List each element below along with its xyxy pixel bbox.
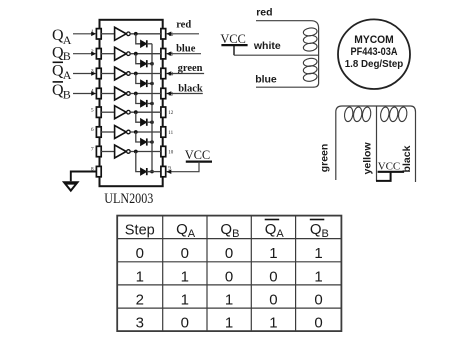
channel 2 driver [96,47,165,60]
svg-text:white: white [253,40,281,52]
svg-text:0: 0 [136,245,144,262]
svg-text:B: B [63,88,71,102]
svg-text:B: B [63,49,71,63]
svg-text:1: 1 [181,292,189,309]
wire input 1 [73,33,92,35]
COM wire to pin 9 [147,171,161,173]
svg-text:0: 0 [269,268,277,285]
svg-text:Q: Q [176,221,188,238]
svg-text:Step: Step [125,221,155,238]
coil L2 loops [344,107,408,123]
wire pin8 to ground [71,172,97,182]
svg-text:MYCOM: MYCOM [354,34,394,46]
svg-text:1: 1 [136,268,144,285]
diode D5 [136,112,154,126]
svg-text:3: 3 [136,315,144,332]
svg-text:A: A [188,228,196,240]
pin 8 GND pin [96,166,101,176]
wire output green [166,73,204,75]
ground symbol [62,181,80,192]
svg-text:green: green [178,63,203,74]
svg-text:PF443-03A: PF443-03A [351,46,398,58]
svg-text:A: A [63,33,72,47]
svg-text:V: V [220,32,229,46]
common cathode bus wire [151,44,153,172]
svg-text:1.8 Deg/Step: 1.8 Deg/Step [345,58,404,70]
channel 1 driver [96,27,165,40]
wire input 3 [73,73,92,75]
wire output blue [166,53,201,55]
wire output black [166,93,203,95]
IC U1 ULN2003 body [100,20,163,186]
input label not-QA [52,62,72,82]
svg-text:1: 1 [314,268,322,285]
motor M1 MYCOM circle [338,19,410,89]
table row step 2 [136,292,323,309]
diode D4 [136,94,154,108]
svg-text:0: 0 [181,245,189,262]
svg-text:CC: CC [194,148,211,162]
svg-text:black: black [178,83,203,94]
diode D2 [136,54,154,68]
svg-text:1: 1 [269,245,277,262]
svg-text:0: 0 [225,245,233,262]
svg-text:1: 1 [181,268,189,285]
svg-text:Q: Q [265,221,277,238]
table row step 0 [136,245,323,262]
diode D1 [136,34,152,48]
diode D7 [136,152,154,176]
channel 3 driver [96,67,165,80]
VCC supply at pin 9 [166,148,212,174]
input label not-QB [52,82,71,102]
VCC supply winding2 [376,161,404,181]
svg-text:red: red [256,7,272,19]
pin 9 COM pin [161,166,166,176]
svg-text:black: black [401,145,413,172]
svg-text:CC: CC [229,32,246,46]
svg-text:10: 10 [168,151,174,156]
wire output red [166,33,199,35]
channel 7 driver [96,145,165,158]
svg-text:1: 1 [225,315,233,332]
svg-text:0: 0 [225,268,233,285]
svg-text:blue: blue [255,73,277,85]
channel 5 driver [96,106,165,119]
svg-text:1: 1 [314,245,322,262]
svg-text:2: 2 [136,292,144,309]
svg-text:B: B [322,228,329,240]
svg-text:7: 7 [91,147,94,153]
svg-text:0: 0 [181,315,189,332]
coil L1 loops [303,27,318,82]
channel 4 driver [96,87,165,100]
wire input 4 [73,93,92,95]
table row step 1 [136,268,323,285]
svg-text:yellow: yellow [361,142,373,175]
svg-text:A: A [63,68,72,82]
svg-text:0: 0 [314,315,322,332]
svg-text:0: 0 [269,292,277,309]
svg-text:Q: Q [220,221,232,238]
winding L2 top wire [336,106,416,182]
wire input 2 [73,53,92,55]
svg-text:Q: Q [310,221,322,238]
svg-text:A: A [276,228,284,240]
VCC supply winding1 [220,32,247,55]
wire white center tap [234,54,319,56]
step sequence table [117,216,341,332]
diode D3 [136,74,154,88]
svg-text:0: 0 [314,292,322,309]
input label QB [52,45,71,63]
svg-text:red: red [176,19,191,30]
svg-text:6: 6 [91,127,94,133]
table row step 3 [136,315,323,332]
input label QA [52,27,72,47]
svg-text:12: 12 [168,111,174,116]
diode D6 [136,132,154,146]
svg-text:1: 1 [269,315,277,332]
svg-text:5: 5 [91,107,94,113]
svg-text:green: green [319,144,331,173]
svg-text:V: V [185,148,194,162]
channel 6 driver [96,126,165,139]
svg-text:ULN2003: ULN2003 [104,191,153,207]
wire yellow tap [376,106,378,181]
svg-text:B: B [232,228,239,240]
svg-text:1: 1 [225,292,233,309]
svg-text:blue: blue [176,44,196,55]
svg-text:11: 11 [168,131,173,136]
winding L1 wire red [256,21,319,88]
